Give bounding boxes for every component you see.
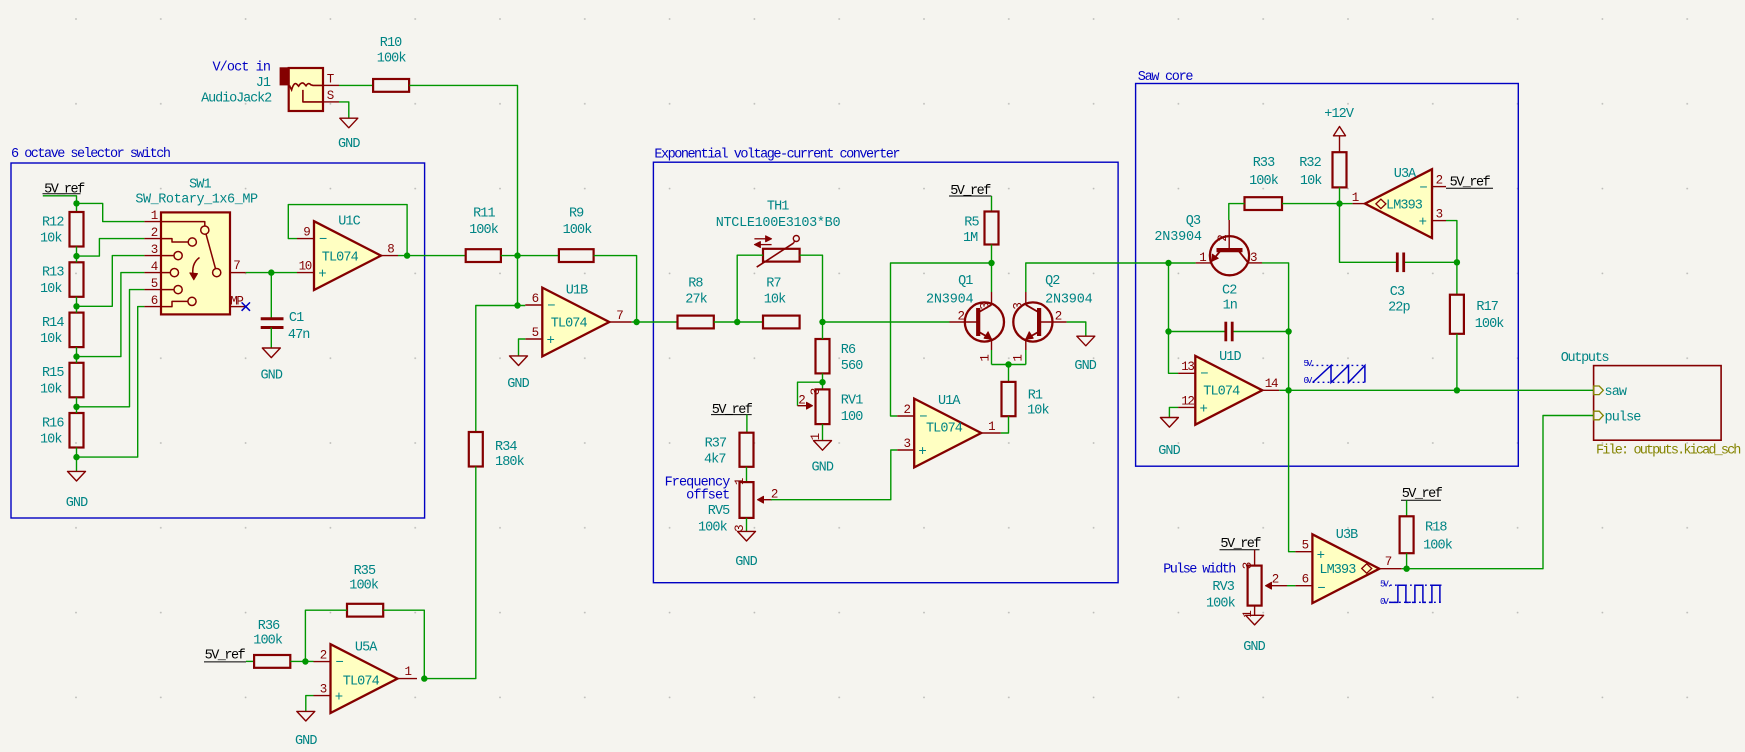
svg-text:S: S — [327, 89, 334, 103]
SW1 pin 7 (common) — [230, 272, 246, 274]
wire tap4 to SW1 pin4 — [77, 273, 145, 357]
wire R1 to U1A out — [1001, 416, 1009, 433]
junction U5A out — [421, 675, 427, 681]
svg-text:3: 3 — [809, 388, 823, 395]
svg-text:−: − — [1419, 181, 1427, 197]
svg-text:−: − — [919, 409, 927, 425]
U5A pin 2 — [314, 661, 331, 663]
svg-text:7: 7 — [1385, 555, 1392, 569]
U1C pin 10 — [297, 272, 314, 274]
svg-text:2: 2 — [1272, 572, 1279, 586]
svg-text:J1: J1 — [256, 76, 271, 91]
wire C1 to GND — [270, 328, 272, 349]
op-amp U1D TL074 — [1195, 356, 1262, 425]
svg-text:22p: 22p — [1388, 300, 1410, 315]
trimmer RV1 100 — [816, 389, 830, 424]
svg-text:10k: 10k — [40, 232, 62, 247]
wire U5A+ to GND — [306, 696, 314, 712]
wire 5V_ref to R36 — [246, 660, 254, 662]
SW1 contact 6 — [161, 301, 188, 306]
wire tap5 to SW1 pin5 — [77, 290, 145, 407]
resistor R18 100k — [1400, 516, 1414, 553]
resistor R16 10k — [70, 413, 84, 448]
note box Saw core — [1136, 84, 1519, 467]
svg-text:AudioJack2: AudioJack2 — [201, 92, 272, 107]
svg-text:6 octave selector switch: 6 octave selector switch — [11, 147, 170, 162]
svg-text:Pulse width: Pulse width — [1163, 563, 1235, 578]
svg-text:TL074: TL074 — [926, 421, 963, 436]
wire 5V_ref to R12 — [43, 196, 77, 212]
op-amp U1A TL074 — [914, 399, 981, 468]
junction R7/R6 — [819, 319, 825, 325]
wire R17 to saw row — [1456, 334, 1458, 391]
svg-text:R36: R36 — [258, 619, 280, 634]
op-amp U1C TL074 — [314, 221, 381, 290]
svg-text:R34: R34 — [495, 440, 517, 455]
U3B pin 7 output — [1379, 568, 1401, 570]
svg-text:5V_ref: 5V_ref — [205, 649, 246, 664]
svg-text:+: + — [547, 333, 555, 349]
junction at C1 tap — [268, 269, 274, 275]
wire R14-R15 — [76, 347, 78, 363]
SW1 pin 4 — [144, 272, 161, 274]
wire R36 to U5A- — [290, 660, 313, 662]
transistor Q1 2N3904 — [965, 302, 1004, 341]
svg-text:1: 1 — [1352, 191, 1359, 205]
wire U3A out — [1340, 203, 1353, 205]
svg-text:TH1: TH1 — [767, 199, 789, 214]
resistor R9 100k — [559, 249, 594, 262]
svg-text:1: 1 — [1241, 611, 1255, 618]
wire R33 right — [1282, 203, 1340, 205]
resistor R13 10k — [70, 262, 84, 297]
svg-text:R33: R33 — [1253, 156, 1275, 171]
sheet pin saw — [1594, 386, 1604, 395]
wire J1.S to GND — [339, 102, 349, 118]
resistor R11 100k — [466, 249, 501, 262]
junction R12/R13 — [73, 253, 79, 259]
svg-text:10k: 10k — [40, 382, 62, 397]
svg-text:2: 2 — [957, 310, 964, 324]
switch SW1 SW_Rotary_1x6_MP — [161, 212, 230, 314]
wire RV3 to GND — [1254, 606, 1256, 616]
svg-text:R13: R13 — [42, 266, 64, 281]
wire R33 left to Q3 base — [1229, 204, 1245, 220]
svg-text:TL074: TL074 — [322, 250, 359, 265]
svg-text:R1: R1 — [1028, 388, 1043, 403]
svg-text:5V.: 5V. — [1304, 359, 1315, 369]
svg-text:4k7: 4k7 — [704, 452, 726, 467]
svg-text:2N3904: 2N3904 — [1154, 230, 1202, 245]
wire RV5 to GND — [746, 518, 748, 532]
resistor R37 4k7 — [740, 433, 754, 467]
capacitor C1 47n — [261, 317, 284, 320]
svg-text:5V_ref: 5V_ref — [44, 182, 85, 197]
svg-text:SW1: SW1 — [189, 177, 211, 192]
wire R13-R14 — [76, 297, 78, 313]
svg-text:27k: 27k — [685, 292, 707, 307]
capacitor C2 1n — [1169, 331, 1226, 333]
svg-text:100k: 100k — [698, 521, 728, 536]
svg-text:+: + — [335, 690, 343, 706]
hierarchical sheet Outputs — [1594, 366, 1722, 441]
RV1 wiper — [798, 382, 823, 406]
op-amp U3A LM393 (mirrored) — [1365, 169, 1432, 238]
svg-text:1: 1 — [978, 355, 992, 362]
svg-text:GND: GND — [295, 734, 317, 749]
svg-text:pulse: pulse — [1605, 410, 1642, 425]
svg-text:100k: 100k — [253, 633, 283, 648]
junction C3 right — [1454, 259, 1460, 265]
svg-text:10k: 10k — [40, 332, 62, 347]
svg-text:100k: 100k — [469, 223, 499, 238]
wire tap2 to SW1 pin2 — [77, 239, 145, 257]
U3A pin 3 — [1432, 220, 1446, 222]
svg-text:100k: 100k — [1423, 539, 1453, 554]
U3A pin 2 — [1432, 186, 1446, 188]
svg-text:1: 1 — [404, 665, 411, 679]
resistor R1 10k — [1002, 382, 1016, 416]
svg-text:V/oct in: V/oct in — [212, 61, 270, 76]
svg-text:2: 2 — [771, 487, 778, 501]
junction R11/R9/R10 — [514, 252, 520, 258]
svg-text:560: 560 — [841, 359, 863, 374]
svg-text:C2: C2 — [1222, 284, 1237, 299]
U5A pin 3 — [314, 695, 331, 697]
svg-text:13: 13 — [1181, 360, 1194, 374]
svg-text:−: − — [1200, 367, 1208, 383]
svg-text:R17: R17 — [1476, 300, 1498, 315]
svg-text:Saw core: Saw core — [1138, 70, 1194, 85]
svg-text:10k: 10k — [1300, 174, 1322, 189]
ground at U5A+ — [297, 711, 315, 721]
svg-text:U1C: U1C — [338, 215, 360, 230]
svg-text:1: 1 — [988, 420, 995, 434]
junction Q3 emitter net — [1165, 260, 1171, 266]
svg-text:1: 1 — [1011, 355, 1025, 362]
svg-text:RV1: RV1 — [841, 394, 863, 409]
wire R16 to GND — [76, 448, 78, 472]
wire U1B+ to GND — [519, 339, 526, 356]
wire R15-R16 — [76, 397, 78, 413]
svg-text:offset: offset — [686, 489, 729, 504]
svg-text:−: − — [319, 232, 327, 248]
wire emitters to R1 — [1008, 365, 1010, 382]
svg-text:6: 6 — [151, 294, 158, 308]
wire R18 to U3B out — [1406, 553, 1408, 569]
svg-text:6: 6 — [532, 292, 539, 306]
svg-text:1n: 1n — [1223, 299, 1237, 314]
junction R5/Q1C/U1A- — [988, 260, 994, 266]
svg-text:R35: R35 — [354, 564, 376, 579]
svg-text:3: 3 — [1250, 251, 1257, 265]
svg-text:R7: R7 — [766, 277, 781, 292]
wire RV3 wiper to U3B- — [1287, 585, 1295, 587]
ground below RV5 — [738, 531, 756, 541]
svg-text:2: 2 — [1055, 310, 1062, 324]
svg-text:R6: R6 — [841, 343, 856, 358]
trimmer RV3 100k — [1248, 566, 1262, 606]
svg-text:R16: R16 — [42, 416, 64, 431]
svg-text:GND: GND — [735, 555, 757, 570]
U1A pin 3 — [897, 449, 914, 451]
SW1 pin 5 — [144, 289, 161, 291]
svg-text:9: 9 — [303, 226, 310, 240]
junction R8/R7/TH1 — [734, 319, 740, 325]
resistor R33 100k — [1245, 197, 1283, 210]
svg-text:2: 2 — [1436, 174, 1443, 188]
junction emitters/R1 — [1005, 361, 1011, 367]
junction R16 bottom — [73, 454, 79, 460]
svg-text:3: 3 — [903, 437, 910, 451]
transistor Q3 2N3904 — [1210, 236, 1249, 275]
resistor R5 1M — [985, 212, 999, 245]
svg-text:LM393: LM393 — [1319, 563, 1356, 578]
svg-text:GND: GND — [1158, 444, 1180, 459]
svg-text:U1A: U1A — [938, 394, 961, 409]
junction R36/R35/U5A- — [302, 658, 308, 664]
svg-text:GND: GND — [811, 461, 833, 476]
resistor R14 10k — [70, 313, 84, 348]
svg-text:U3B: U3B — [1336, 528, 1358, 543]
ground below RV3 — [1246, 615, 1264, 625]
svg-text:U5A: U5A — [355, 641, 378, 656]
svg-text:TL074: TL074 — [551, 316, 588, 331]
wire U3A+ to C3/R17 — [1446, 221, 1457, 295]
U1B pin 5 — [525, 338, 542, 340]
U1C pin 9 — [297, 238, 314, 240]
svg-text:2: 2 — [1216, 235, 1230, 242]
svg-text:Exponential voltage-current co: Exponential voltage-current converter — [654, 147, 899, 162]
wire tap1 to SW1 pin1 — [77, 203, 145, 221]
svg-text:10k: 10k — [1027, 404, 1049, 419]
svg-text:Outputs: Outputs — [1561, 351, 1609, 366]
U3A pin 1 output — [1352, 203, 1365, 205]
svg-text:GND: GND — [507, 377, 529, 392]
svg-text:U1B: U1B — [566, 284, 588, 299]
svg-text:U1D: U1D — [1219, 350, 1241, 365]
note box Exponential voltage-current converter — [653, 162, 1118, 583]
svg-text:100k: 100k — [349, 579, 379, 594]
svg-text:7: 7 — [616, 309, 623, 323]
wire U1D out to saw junction — [1279, 389, 1288, 391]
svg-text:U3A: U3A — [1394, 167, 1417, 182]
wire R6 to RV1 — [822, 373, 824, 389]
op-amp U3B LM393 — [1312, 534, 1379, 603]
svg-text:4: 4 — [151, 260, 158, 274]
note box 6 octave selector switch — [11, 163, 425, 518]
thermistor TH1 NTCLE100E3103*B0 — [763, 249, 800, 262]
transistor Q2 2N3904 — [1013, 302, 1052, 341]
U1B pin 7 output — [609, 321, 631, 323]
svg-text:100k: 100k — [1475, 317, 1505, 332]
svg-text:Q1: Q1 — [958, 274, 973, 289]
wire SW1.7 to U1C+ — [246, 272, 297, 274]
wire saw to outputs sheet — [1289, 389, 1594, 391]
wire R5 to Q1 collector — [991, 245, 993, 264]
SW1 pin 3 — [144, 255, 161, 257]
op-amp U5A TL074 — [331, 644, 398, 713]
SW1 contact 5 — [161, 289, 174, 291]
SW1 rotation arrow — [193, 258, 200, 278]
svg-text:1: 1 — [1199, 251, 1206, 265]
svg-text:−: − — [1317, 581, 1325, 597]
SW1 contact 1 (rotor start) — [161, 222, 205, 226]
SW1 contact 3 — [161, 255, 174, 257]
wire R34 to U5A out — [424, 467, 476, 679]
svg-text:+: + — [1200, 401, 1208, 417]
wire tap3 to SW1 pin3 — [77, 256, 145, 307]
svg-text:R32: R32 — [1299, 156, 1321, 171]
wire J1.T to R10 — [339, 84, 373, 86]
wire pulse to outputs sheet — [1402, 416, 1594, 569]
svg-text:GND: GND — [1243, 640, 1265, 655]
svg-text:2: 2 — [151, 226, 158, 240]
svg-text:R9: R9 — [569, 206, 584, 221]
resistor R7 10k — [763, 316, 800, 329]
no-connect at MP — [242, 302, 250, 310]
svg-text:3: 3 — [978, 303, 992, 310]
ground below R16 — [68, 471, 86, 481]
U1C feedback wire — [288, 205, 407, 256]
junction C2 left — [1165, 328, 1171, 334]
SW1 contact 2 — [161, 239, 188, 242]
wire Q1 emitter — [991, 350, 993, 365]
U1B pin 6 — [525, 304, 542, 306]
wire R35 left — [305, 610, 347, 661]
wire Q3 collector to C2 right — [1262, 263, 1289, 332]
svg-text:5: 5 — [151, 277, 158, 291]
wire R10 to R11 row — [409, 85, 517, 255]
ground at U1D+ — [1160, 418, 1178, 428]
wire R8 to R7 — [714, 321, 763, 323]
SW1 rotor — [206, 234, 216, 269]
junction at U1B- — [514, 302, 520, 308]
svg-text:R11: R11 — [473, 206, 495, 221]
svg-text:GND: GND — [338, 137, 360, 152]
svg-text:LM393: LM393 — [1386, 199, 1423, 214]
svg-text:1: 1 — [151, 209, 158, 223]
wire R37 to RV5 — [746, 467, 748, 482]
trimmer RV5 100k — [740, 482, 754, 518]
svg-text:−: − — [336, 655, 344, 671]
svg-text:GND: GND — [66, 496, 88, 511]
wire U1A- net — [891, 263, 992, 416]
wire U1B out to R8 — [632, 321, 678, 323]
resistor R34 180k — [469, 432, 483, 467]
svg-text:TL074: TL074 — [343, 674, 380, 689]
svg-text:+12V: +12V — [1324, 107, 1355, 122]
RV3 wiper — [1266, 585, 1288, 587]
SW1 pin 1 — [144, 221, 161, 223]
junction U1B out — [633, 319, 639, 325]
wire 5V_ref to R5 — [991, 196, 993, 212]
wire R12-R13 — [76, 247, 78, 263]
svg-text:R10: R10 — [380, 36, 402, 51]
junction R15/R16 — [73, 404, 79, 410]
wire junction down to U1B- — [518, 256, 526, 306]
wire RV1 to GND — [822, 424, 824, 441]
ground at Q2 base — [1077, 336, 1095, 346]
svg-text:3: 3 — [1436, 208, 1443, 222]
resistor R17 100k — [1450, 295, 1464, 334]
svg-text:1M: 1M — [963, 231, 978, 246]
wire Q2 emitter — [1025, 350, 1027, 365]
SW1 pin 2 — [144, 238, 161, 240]
wire 5V_ref to R37 — [746, 415, 748, 433]
resistor R15 10k — [70, 363, 84, 398]
junction C2 right — [1285, 328, 1291, 334]
junction U1C output — [404, 252, 410, 258]
U1D pin 14 output — [1262, 389, 1279, 391]
wire Q1 collector — [991, 263, 993, 292]
svg-text:7: 7 — [233, 259, 240, 273]
junction U1D out — [1285, 387, 1291, 393]
wire Q3 emitter to main net — [1169, 262, 1196, 264]
wire TH1 left — [737, 255, 763, 322]
sheet pin pulse — [1594, 411, 1604, 420]
wire emitter row — [992, 364, 1026, 366]
svg-text:5V_ref: 5V_ref — [950, 184, 991, 199]
wire Q2 collector to Q3 net — [1026, 263, 1169, 292]
svg-text:100k: 100k — [1206, 597, 1236, 612]
svg-text:5V.: 5V. — [1380, 580, 1391, 590]
J1 pin T — [323, 84, 339, 86]
svg-text:R15: R15 — [42, 366, 64, 381]
svg-text:GND: GND — [260, 369, 282, 384]
ground below RV1 — [814, 441, 832, 451]
wire saw net vertical — [1289, 332, 1296, 552]
ground at J1 — [340, 118, 358, 128]
svg-text:2: 2 — [798, 393, 805, 407]
svg-text:saw: saw — [1605, 385, 1627, 400]
svg-text:2N3904: 2N3904 — [926, 292, 974, 307]
svg-text:R5: R5 — [964, 215, 979, 230]
svg-text:100k: 100k — [563, 223, 593, 238]
svg-text:3: 3 — [1011, 303, 1025, 310]
resistor R10 — [373, 79, 409, 92]
junction R13/R14 — [73, 303, 79, 309]
svg-text:5: 5 — [532, 326, 539, 340]
wire tap6 to SW1 pin6 — [77, 307, 145, 458]
svg-text:6: 6 — [1302, 573, 1309, 587]
SW1 contact 4 — [161, 272, 170, 274]
svg-text:10k: 10k — [764, 292, 786, 307]
svg-text:2: 2 — [903, 403, 910, 417]
ground at U1B+ — [510, 356, 528, 366]
svg-text:47n: 47n — [288, 328, 310, 343]
wire RV5 wiper to U1A+ — [771, 450, 897, 500]
junction R17/saw — [1454, 387, 1460, 393]
U1A pin 2 — [897, 415, 914, 417]
svg-text:+: + — [1419, 215, 1427, 231]
svg-text:C3: C3 — [1390, 285, 1405, 300]
wire R11 to R9 — [501, 255, 559, 257]
wire R32 to node — [1339, 187, 1341, 203]
svg-text:R18: R18 — [1425, 521, 1447, 536]
svg-text:Q2: Q2 — [1045, 274, 1060, 289]
svg-text:10k: 10k — [40, 282, 62, 297]
U1A pin 1 output — [981, 432, 1001, 434]
junction U3B out/R18 — [1403, 566, 1409, 572]
wire U1B- to R34 — [476, 306, 518, 433]
SW1 pin MP — [230, 306, 246, 308]
RV5 wiper — [758, 499, 773, 501]
svg-text:3: 3 — [320, 683, 327, 697]
svg-text:GND: GND — [1074, 359, 1096, 374]
wire TH1 right — [800, 255, 823, 322]
svg-text:TL074: TL074 — [1203, 385, 1240, 400]
